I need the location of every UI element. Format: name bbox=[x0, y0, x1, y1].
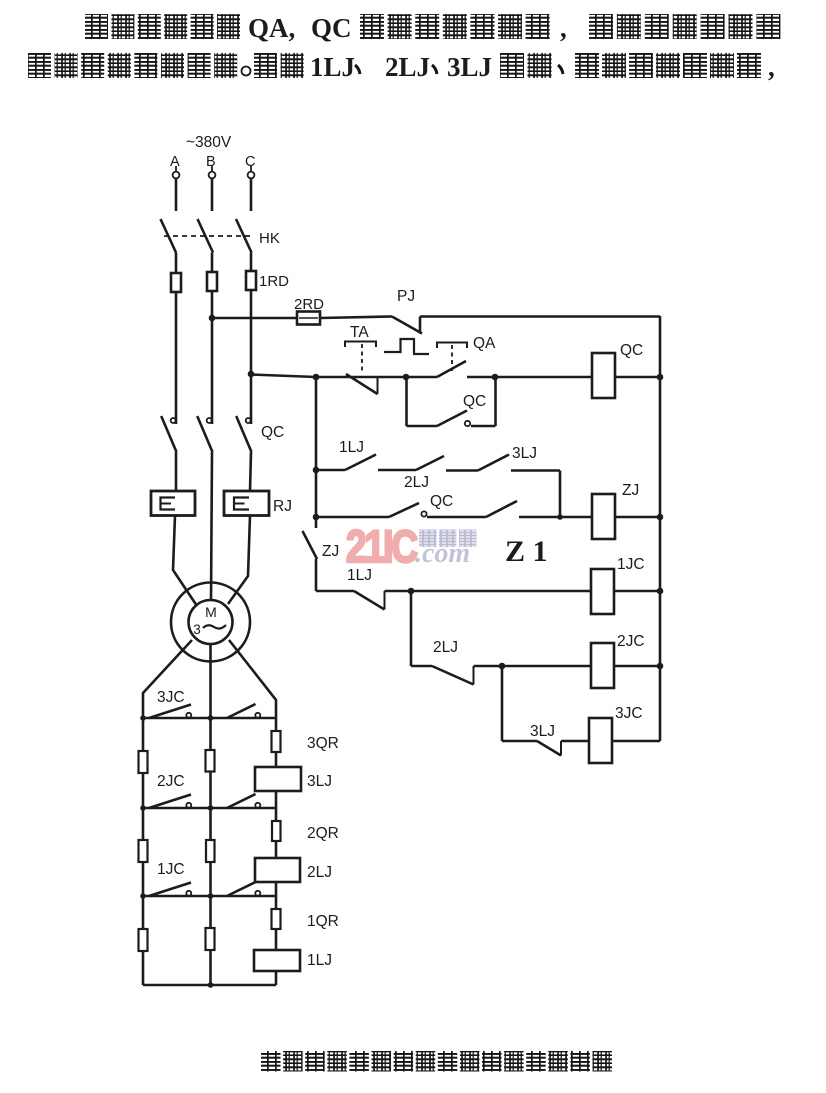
resistor middle phase section 3 bbox=[206, 750, 215, 772]
contact QC aux blade bbox=[389, 503, 419, 517]
svg-text:QC: QC bbox=[463, 393, 486, 410]
knife switch HK blade A bbox=[161, 219, 177, 253]
wire phase B to fuse bbox=[211, 253, 214, 273]
contact 2LJ NC blade bbox=[432, 666, 474, 685]
wire ZJ coil to rail bbox=[614, 516, 660, 519]
motor tilde bbox=[203, 625, 226, 629]
wire self-hold bottom right bbox=[471, 425, 496, 428]
wire row5 to row6 bbox=[410, 591, 413, 666]
wire row3 c bbox=[446, 469, 478, 472]
node row4 left bbox=[313, 514, 320, 521]
contactor QC main contact A blade bbox=[161, 416, 176, 452]
contactor QC main contact B terminal bbox=[207, 418, 212, 423]
contactor QC main contact C terminal bbox=[246, 418, 251, 423]
wire rotor lead left bbox=[143, 640, 192, 751]
contact 3LJ NC blade bbox=[537, 741, 561, 756]
contactor QC main contact B blade bbox=[197, 416, 212, 452]
svg-text:QA,: QA, bbox=[248, 13, 295, 43]
wire row7 a bbox=[502, 740, 537, 743]
button QA (start, NO) bbox=[437, 343, 467, 349]
svg-text:ZJ: ZJ bbox=[322, 543, 339, 560]
contact QC aux terminal bbox=[421, 511, 426, 516]
wire self-hold bottom left bbox=[407, 425, 438, 428]
knife switch HK linkage (dashed) bbox=[164, 235, 253, 237]
contact 2JC rotor short bar bbox=[143, 807, 276, 810]
node row3 joins row4 bbox=[557, 514, 563, 520]
svg-text:2JC: 2JC bbox=[157, 773, 185, 790]
svg-text:1RD: 1RD bbox=[259, 273, 289, 290]
node phase C tap bbox=[248, 371, 255, 378]
caption bbox=[261, 1051, 281, 1072]
terminal C bbox=[248, 172, 255, 179]
svg-text:,: , bbox=[768, 52, 775, 82]
svg-text:21IC: 21IC bbox=[346, 521, 418, 572]
contactor QC main contact C blade bbox=[236, 416, 251, 452]
svg-text:1LJ: 1LJ bbox=[307, 952, 332, 969]
button QA bridge linkage bbox=[384, 339, 429, 354]
svg-text:.com: .com bbox=[415, 538, 470, 569]
wire phase B upper bbox=[211, 178, 214, 211]
wire middle column bottom bbox=[209, 950, 212, 985]
wire row6 to row7 bbox=[501, 666, 504, 741]
node rail row5 bbox=[657, 588, 664, 595]
svg-text:RJ: RJ bbox=[273, 498, 292, 515]
svg-text:3LJ: 3LJ bbox=[307, 773, 332, 790]
terminal A tick bbox=[175, 166, 177, 171]
wire row7 b bbox=[561, 740, 589, 743]
contact QC self-hold blade bbox=[437, 411, 467, 427]
svg-text:1QR: 1QR bbox=[307, 913, 339, 930]
contact 3JC blade 2 bbox=[227, 704, 256, 718]
svg-text:Z 1: Z 1 bbox=[505, 535, 548, 568]
wire left column bbox=[142, 773, 145, 840]
wire middle column lower bbox=[209, 862, 212, 928]
watermark cjk bbox=[419, 530, 437, 548]
wire phase A to fuse bbox=[175, 253, 178, 274]
relay coil 2JC bbox=[591, 643, 614, 688]
node row6 branch bbox=[499, 663, 506, 670]
button QA stem bbox=[451, 345, 453, 371]
svg-text:TA: TA bbox=[350, 324, 369, 341]
node row5 branch bbox=[408, 588, 415, 595]
resistor right phase section 1 bbox=[272, 909, 281, 929]
button TA stem bbox=[361, 344, 363, 374]
wire row5 b bbox=[385, 590, 592, 593]
wire phase C to fuse bbox=[250, 253, 253, 272]
wire to control row bbox=[251, 375, 316, 378]
svg-text:2LJ: 2LJ bbox=[307, 864, 332, 881]
wire stator lead A bbox=[173, 516, 197, 607]
resistor middle phase section 2 bbox=[206, 840, 215, 862]
button TA (stop, NC) bbox=[345, 342, 376, 348]
contactor QC main contact A upper stub bbox=[175, 409, 178, 424]
relay coil 1JC bbox=[591, 569, 614, 614]
node phase B tap bbox=[209, 315, 216, 322]
svg-text:1JC: 1JC bbox=[617, 556, 645, 573]
wire row3 a bbox=[316, 469, 345, 472]
thermal relay RJ element 1 bbox=[151, 491, 195, 516]
svg-text:M: M bbox=[205, 604, 217, 620]
resistor right phase section 2 bbox=[272, 821, 281, 841]
wire PJ drop bbox=[419, 317, 422, 334]
wire control left rail bbox=[315, 377, 318, 528]
svg-text:QC: QC bbox=[261, 424, 284, 441]
svg-text:QC: QC bbox=[620, 342, 643, 359]
knife switch HK blade B bbox=[198, 219, 214, 253]
contact 1JC blade 1 bbox=[149, 883, 191, 897]
node row2 left rail bbox=[313, 374, 320, 381]
node row3 left bbox=[313, 467, 320, 474]
relay coil ZJ bbox=[592, 494, 615, 539]
fuse 1RD phase B bbox=[207, 272, 217, 291]
wire phase A upper bbox=[175, 178, 178, 211]
wire rotor lead middle bbox=[209, 644, 212, 750]
svg-text:,: , bbox=[560, 13, 567, 43]
svg-text:2QR: 2QR bbox=[307, 825, 339, 842]
svg-text:2JC: 2JC bbox=[617, 633, 645, 650]
ideographic comma bbox=[432, 65, 437, 74]
svg-text:1LJ: 1LJ bbox=[339, 439, 364, 456]
wire phase C mid bbox=[250, 290, 253, 409]
contact 1JC blade 2 bbox=[227, 882, 256, 896]
svg-text:1JC: 1JC bbox=[157, 861, 185, 878]
wire 1JC coil to rail bbox=[613, 590, 660, 593]
wire phase A to RJ bbox=[175, 452, 178, 491]
knife switch HK blade C bbox=[236, 219, 252, 253]
wire QC coil to rail bbox=[614, 376, 660, 379]
contact PJ blade bbox=[392, 317, 422, 334]
wire row4 b bbox=[427, 516, 486, 519]
svg-text:ZJ: ZJ bbox=[622, 482, 639, 499]
wire control row 2 right bbox=[467, 376, 592, 379]
wire 2JC coil to rail bbox=[613, 665, 660, 668]
contactor coil QC bbox=[592, 353, 615, 398]
relay coil 2LJ bbox=[255, 858, 300, 882]
ideographic comma bbox=[558, 65, 563, 74]
wire row3 b bbox=[378, 469, 416, 472]
wire top rail bbox=[420, 315, 660, 318]
wire rotor bottom bar bbox=[143, 984, 276, 987]
wire 2RD to PJ bbox=[320, 317, 392, 319]
svg-text:3LJ: 3LJ bbox=[447, 52, 492, 82]
wire right rail bbox=[659, 316, 662, 741]
contactor QC main contact B upper stub bbox=[211, 409, 214, 424]
button TA blade bbox=[346, 374, 378, 394]
fuse 2RD bbox=[297, 312, 320, 325]
svg-text:2LJ: 2LJ bbox=[433, 639, 458, 656]
node rotor star point bbox=[208, 982, 214, 988]
svg-text:3JC: 3JC bbox=[157, 689, 185, 706]
thermal relay RJ element 2 bbox=[224, 491, 269, 516]
wire stator lead B bbox=[211, 452, 212, 601]
terminal B tick bbox=[211, 166, 213, 171]
wire left column bottom bbox=[142, 951, 145, 985]
node rail row4 bbox=[657, 514, 664, 521]
contactor QC main contact C upper stub bbox=[250, 409, 253, 424]
fuse 1RD phase A bbox=[171, 273, 181, 292]
svg-text:QC: QC bbox=[430, 493, 453, 510]
wire phase B mid bbox=[211, 291, 214, 409]
wire row4 a bbox=[316, 516, 389, 519]
contact QC self-hold terminal bbox=[465, 421, 470, 426]
svg-text:2LJ: 2LJ bbox=[385, 52, 430, 82]
terminal B bbox=[209, 172, 216, 179]
svg-text:~380V: ~380V bbox=[186, 134, 232, 151]
wire 3JC coil to rail bbox=[611, 740, 660, 743]
wire left rail lower bbox=[315, 559, 318, 591]
svg-text:3: 3 bbox=[193, 622, 201, 637]
terminal A bbox=[173, 172, 180, 179]
wire control row 2 left bbox=[316, 376, 437, 379]
svg-text:QA: QA bbox=[473, 335, 496, 352]
svg-text:2LJ: 2LJ bbox=[404, 474, 429, 491]
contact 2JC blade 2 bbox=[227, 794, 256, 808]
relay coil 3LJ bbox=[255, 767, 301, 791]
wire right column bbox=[275, 752, 278, 767]
wire self-hold left leg bbox=[405, 377, 408, 426]
wire phase C to RJ bbox=[250, 452, 251, 491]
motor M 3~ bbox=[171, 583, 250, 662]
contact 2JC blade 1 bbox=[149, 795, 191, 809]
resistor left phase section 1 bbox=[139, 929, 148, 951]
ideographic comma bbox=[355, 65, 360, 74]
resistor right phase section 3 bbox=[272, 731, 281, 752]
paragraph line 2 bbox=[28, 53, 51, 78]
terminal C tick bbox=[250, 166, 252, 171]
contact 3JC blade 1 bbox=[149, 705, 191, 719]
contact 3LJ blade bbox=[478, 455, 509, 471]
wire row6 b bbox=[474, 665, 592, 668]
wire middle column bbox=[209, 772, 212, 841]
svg-text:B: B bbox=[206, 154, 216, 170]
node self-hold right bbox=[492, 374, 499, 381]
svg-text:HK: HK bbox=[259, 230, 280, 247]
node self-hold left bbox=[403, 374, 410, 381]
fuse 1RD phase C bbox=[246, 271, 256, 290]
wire phase A mid bbox=[175, 292, 178, 409]
contact 1JC rotor short bar bbox=[143, 895, 276, 898]
wire stator lead C bbox=[228, 516, 250, 605]
wire self-hold right leg bbox=[494, 377, 497, 426]
contact ZJ blade bbox=[303, 531, 318, 559]
node rail row6 bbox=[657, 663, 664, 670]
svg-text:QC: QC bbox=[311, 13, 352, 43]
wire left column lower bbox=[142, 862, 145, 896]
paragraph line 1 bbox=[85, 14, 108, 39]
svg-text:3QR: 3QR bbox=[307, 735, 339, 752]
contactor QC main contact A terminal bbox=[171, 418, 176, 423]
wire rotor lead right bbox=[229, 640, 276, 731]
svg-text:1LJ: 1LJ bbox=[310, 52, 355, 82]
resistor left phase section 3 bbox=[139, 751, 148, 773]
contact 3JC rotor short bar bbox=[143, 717, 276, 720]
resistor middle phase section 1 bbox=[206, 928, 215, 950]
node rail row2 bbox=[657, 374, 664, 381]
svg-text:3LJ: 3LJ bbox=[530, 723, 555, 740]
relay coil 3JC bbox=[589, 718, 612, 763]
svg-text:3JC: 3JC bbox=[615, 705, 643, 722]
wire to fuse 2RD bbox=[212, 317, 297, 320]
relay coil 1LJ bbox=[254, 950, 300, 971]
wire phase C upper bbox=[250, 178, 253, 211]
svg-text:A: A bbox=[170, 154, 180, 170]
wire row3 to row4 bbox=[559, 471, 562, 518]
contact 2LJ blade bbox=[416, 456, 444, 470]
resistor left phase section 2 bbox=[139, 840, 148, 862]
wire row6 a bbox=[411, 665, 432, 668]
wire row3 d bbox=[511, 469, 560, 472]
svg-text:PJ: PJ bbox=[397, 288, 415, 305]
wire row4 c bbox=[519, 516, 592, 519]
wire row5 a bbox=[316, 590, 354, 593]
contact 1LJ NC blade bbox=[354, 591, 385, 610]
svg-text:3LJ: 3LJ bbox=[512, 445, 537, 462]
button QA blade bbox=[437, 361, 466, 377]
contact 1LJ blade bbox=[345, 455, 376, 471]
contact row4 second blade bbox=[486, 501, 517, 517]
